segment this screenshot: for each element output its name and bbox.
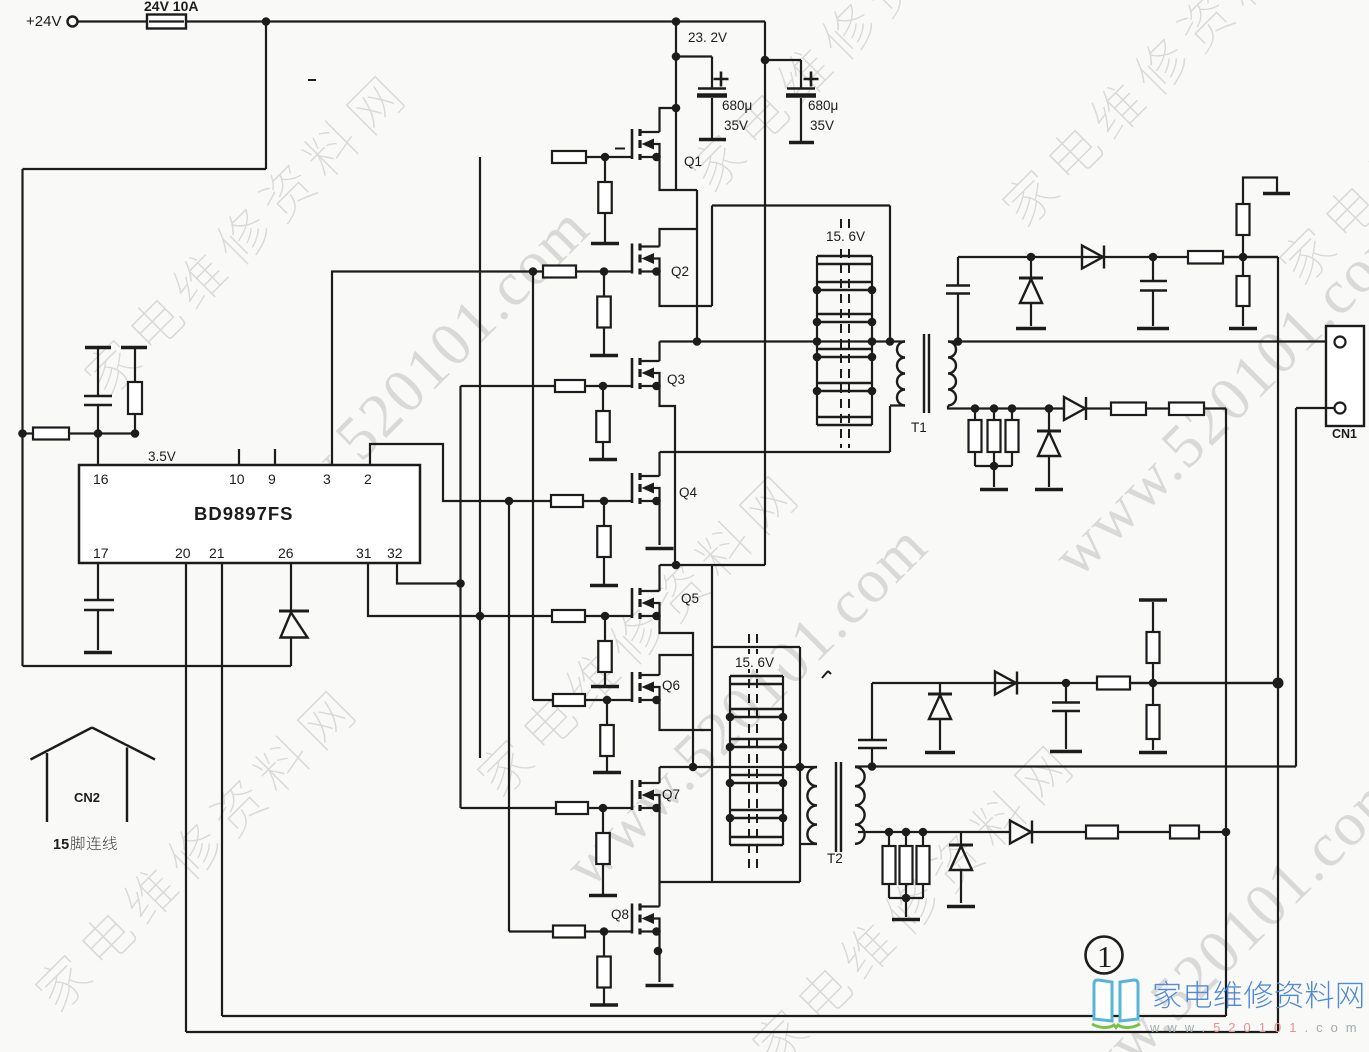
- wire T1 secondary bottom tap: [948, 406, 1064, 409]
- wire pin16 stub: [97, 434, 99, 466]
- wire +24V right rail: [764, 22, 766, 566]
- ground (C2): [84, 651, 112, 655]
- resistor R6 (current sense): [969, 420, 982, 452]
- resistor R4g (gate series, Q4): [551, 495, 583, 507]
- wire gate pulldown Q4: [603, 501, 605, 526]
- resistor R10: [1169, 403, 1204, 416]
- wire gate of Q4: [583, 500, 632, 502]
- wire left rail: [21, 169, 23, 666]
- svg-text:10: 10: [229, 471, 245, 487]
- wire node C line (T1 return): [660, 451, 891, 453]
- wire Q2 drain step: [660, 229, 698, 247]
- wire gate pulldown Q6: [606, 700, 608, 725]
- capacitor bank CB2 dashed core lines: [749, 634, 757, 868]
- resistor R14 (current sense): [883, 846, 896, 884]
- wire gate pulldown Q1: [604, 157, 606, 182]
- capacitor bank CB1 left bus: [816, 256, 818, 425]
- wire R6 top lead: [974, 409, 976, 421]
- capacitor CB2.2 plates: [730, 709, 783, 717]
- wire pin 21 to bottom bus: [221, 564, 223, 1016]
- transistor Q2: [632, 244, 689, 280]
- svg-text:BD9897FS: BD9897FS: [194, 503, 294, 524]
- wire left loop down: [265, 22, 267, 170]
- junction sense R15 top: [902, 828, 911, 837]
- wire R5 to ground: [1242, 306, 1244, 326]
- wire 23.2V rail: [675, 22, 677, 191]
- wire sense join 2: [889, 897, 923, 899]
- svg-text:15: 15: [53, 837, 69, 853]
- svg-text:23. 2V: 23. 2V: [688, 30, 727, 45]
- wire rail to C4: [765, 59, 801, 61]
- ground (C8): [1050, 750, 1082, 754]
- wire C1 top lead: [97, 349, 99, 396]
- wire Q1 source step: [660, 157, 698, 190]
- wire Q6 drain step: [660, 655, 694, 675]
- svg-text:21: 21: [209, 545, 225, 561]
- junction C7 tap: [868, 762, 877, 771]
- wire D3 to R9: [1086, 407, 1111, 409]
- svg-text:35V: 35V: [810, 118, 834, 133]
- junction CB2 right bus: [779, 814, 788, 823]
- junction CB1 right bus: [868, 353, 877, 362]
- svg-text:2: 2: [364, 471, 372, 487]
- wire ZD1 lead: [1030, 257, 1032, 278]
- node gate Q8: [600, 927, 609, 936]
- svg-text:1: 1: [1097, 939, 1113, 974]
- node VREF: [94, 429, 103, 438]
- resistor R8p (gate pulldown, Q8): [597, 957, 611, 988]
- wire node to R2: [98, 432, 135, 434]
- resistor R5g (gate series, Q5): [552, 610, 585, 622]
- junction R2 bottom: [131, 429, 140, 438]
- wire ZD4 top lead: [960, 832, 962, 845]
- junction CB1 left bus: [813, 353, 822, 362]
- svg-text:15. 6V: 15. 6V: [735, 655, 774, 670]
- wire Q5 drain rail line: [660, 564, 766, 566]
- ground (C4): [789, 141, 814, 145]
- resistor R18: [1170, 826, 1199, 839]
- svg-text:Q4: Q4: [679, 485, 698, 500]
- resistor R15 (current sense): [900, 846, 913, 884]
- junction CB2 left bus: [726, 779, 735, 788]
- wire node D line (T2 return): [660, 881, 801, 883]
- wire gate of Q6: [585, 699, 632, 701]
- diode ZD1 zener: [1019, 277, 1043, 280]
- wire sense join: [975, 465, 1012, 467]
- wire rail Q2/Q6 (pin3 bus): [532, 272, 534, 701]
- svg-text:Q1: Q1: [684, 154, 702, 169]
- wire T2 rectifier line: [872, 682, 1278, 684]
- junction CB1 left bus: [813, 337, 822, 346]
- capacitor CB1.6 plates: [817, 417, 872, 425]
- transistor Q8: [632, 904, 661, 936]
- wire ZD1 to ground: [1030, 303, 1032, 326]
- diode ZD4 zener: [949, 844, 973, 847]
- ground (ZD1): [1016, 327, 1046, 331]
- wire Q3 source step: [660, 386, 676, 452]
- junction C5 tap: [954, 337, 963, 346]
- svg-text:T2: T2: [827, 851, 843, 866]
- diode D5: [1010, 821, 1032, 844]
- junction divider 1: [1239, 253, 1248, 262]
- wire T1 rectifier line: [958, 256, 1278, 258]
- wire C7 bottom lead: [871, 748, 873, 767]
- wire gate of Q8: [585, 930, 632, 932]
- node gate Q2: [600, 267, 609, 276]
- wire R5 top lead: [1242, 257, 1244, 276]
- junction sense R8 top: [1008, 404, 1017, 413]
- wire pin 32 to bus: [397, 564, 461, 584]
- wire node A to T1 primary: [660, 340, 906, 342]
- wire ZD2 to ground: [1048, 456, 1050, 487]
- node gate Q3: [599, 382, 608, 391]
- ground (R13): [1139, 751, 1167, 755]
- junction pin3 bus: [529, 267, 538, 276]
- ground (Q2 gate pulldown): [590, 354, 618, 358]
- wire R9 to R10: [1146, 407, 1169, 409]
- resistor R6g (gate series, Q6): [553, 694, 585, 706]
- diode ZD2 zener: [1037, 430, 1061, 433]
- wire R16 top lead: [922, 832, 924, 846]
- resistor R7 (current sense): [988, 420, 1001, 452]
- wire gate of Q3: [585, 385, 632, 387]
- wire pin 26 lead: [290, 564, 292, 611]
- wire T2 box left: [711, 647, 713, 881]
- resistor R13: [1147, 705, 1160, 739]
- wire R4 bottom lead: [1242, 235, 1244, 257]
- capacitor CB1.4 plates: [817, 349, 872, 357]
- resistor R7p (gate pulldown, Q7): [596, 833, 610, 864]
- svg-text:35V: 35V: [724, 118, 748, 133]
- wire ZD3 lead: [939, 683, 941, 694]
- transistor Q7: [632, 780, 680, 812]
- wire CN1 pin2 rail: [1295, 408, 1297, 767]
- wire gate pulldown Q8: [603, 932, 605, 957]
- ground (sense T2): [892, 918, 920, 922]
- junction CB2 left bus: [726, 713, 735, 722]
- svg-text:CN1: CN1: [1332, 427, 1357, 441]
- wire C8 bottom lead: [1065, 711, 1067, 749]
- connector CN2 (15-pin link): [31, 728, 156, 823]
- svg-text:Q7: Q7: [662, 787, 680, 802]
- svg-text:+24V: +24V: [26, 13, 61, 30]
- svg-text:3: 3: [323, 471, 331, 487]
- junction C6 tap: [1149, 253, 1158, 262]
- junction ZD2 tap: [1045, 404, 1054, 413]
- label T2 bank 15.6V: [733, 654, 779, 670]
- capacitor C2 (pin17): [84, 599, 114, 602]
- transformer T1 core: [924, 334, 929, 413]
- resistor R5p (gate pulldown, Q5): [598, 641, 612, 672]
- wire gate pulldown Q3: [602, 386, 604, 411]
- wire Q8 gate line: [509, 930, 553, 932]
- node gate Q5: [601, 612, 610, 621]
- wire gate pulldown Q5: [604, 616, 606, 641]
- wire C6 top lead: [1152, 257, 1154, 281]
- junction sense R16 top: [919, 828, 928, 837]
- junction CB1 left bus: [813, 318, 822, 327]
- wire T2 box top: [712, 646, 800, 648]
- junction rail V2: [1222, 828, 1231, 837]
- diode D4: [995, 672, 1017, 695]
- ground (Q8 gate pulldown): [590, 1003, 618, 1007]
- resistor R9: [1111, 403, 1146, 416]
- junction sense R6 top: [971, 404, 980, 413]
- bar (R12 top): [1139, 598, 1167, 602]
- capacitor bank CB1 dashed core lines: [841, 219, 849, 448]
- wire T2 secondary bottom tap: [858, 831, 1010, 833]
- svg-text:16: 16: [93, 471, 109, 487]
- ground (Q4 gate pulldown): [590, 584, 618, 588]
- ground (C6): [1137, 327, 1169, 331]
- svg-text:17: 17: [93, 545, 109, 561]
- wire bottom bus inner: [222, 1015, 1226, 1017]
- label site logo book icon: [1092, 980, 1140, 1028]
- capacitor CB2.4 plates: [730, 775, 783, 783]
- junction rail to C4: [761, 56, 770, 65]
- junction CB1 right bus: [868, 337, 877, 346]
- transformer T2 primary winding: [807, 767, 817, 844]
- node B junction: [689, 763, 698, 772]
- capacitor C6: [1140, 280, 1167, 283]
- wire C6 bottom lead: [1152, 291, 1154, 327]
- ground (Q8 source): [646, 984, 674, 988]
- wire mid rail (V2 out): [1225, 409, 1227, 1017]
- wire Q1 drain: [660, 108, 673, 132]
- junction top rail B (23.2V): [672, 17, 681, 26]
- capacitor CB2.5 plates: [730, 810, 783, 818]
- wire gate pulldown Q7: [602, 808, 604, 833]
- resistor R6p (gate pulldown, Q6): [600, 725, 614, 756]
- svg-text:Q5: Q5: [681, 591, 699, 606]
- junction Q1 drain rail: [672, 104, 681, 113]
- resistor R8g (gate series, Q8): [553, 926, 585, 938]
- wire C5 top lead: [957, 257, 959, 286]
- svg-text:3.5V: 3.5V: [148, 449, 176, 464]
- wire Q3 drain: [658, 342, 660, 362]
- label 15-pin link text: [53, 836, 117, 853]
- wire sense to ground: [993, 466, 995, 487]
- resistor R2p (gate pulldown, Q2): [597, 297, 611, 328]
- junction CB2 right bus: [779, 743, 788, 752]
- wire C8 top lead: [1065, 683, 1067, 703]
- ground (Q5 gate pulldown): [591, 685, 619, 689]
- wire rail Q1/Q5 (pin31 bus): [479, 157, 481, 758]
- transformer T1 secondary winding: [948, 342, 956, 406]
- junction CB1 left bus: [813, 286, 822, 295]
- resistor R4p (gate pulldown, Q4): [597, 526, 611, 557]
- wire R15 bottom lead: [905, 884, 907, 898]
- wire R12 bottom lead: [1152, 663, 1154, 683]
- label page mark 1: [1086, 937, 1123, 975]
- wire R3 to divider: [1223, 256, 1278, 258]
- wire R16 bottom lead: [922, 884, 924, 898]
- capacitor C5 (coupling): [946, 286, 970, 294]
- wire gate of Q7: [588, 807, 632, 809]
- resistor R8 (current sense): [1006, 420, 1019, 452]
- wire CN1 pin2 lead: [1296, 407, 1335, 409]
- capacitor bank CB1 right bus: [871, 256, 873, 425]
- junction pin32 bus: [456, 579, 465, 588]
- wire gate of Q2: [576, 270, 632, 272]
- wire Q6 source step: [660, 700, 713, 730]
- ground (C1 top bar): [85, 346, 111, 350]
- wire T1 secondary top to CN1: [948, 340, 1335, 342]
- wire R14 top lead: [888, 832, 890, 846]
- junction left rail: [18, 429, 27, 438]
- node gate Q1: [601, 153, 610, 162]
- resistor R11: [1097, 677, 1130, 690]
- wire T2 primary bottom lead: [800, 843, 817, 845]
- wire fuse to rail: [186, 20, 765, 22]
- wire pin 2 to Q4 line: [370, 444, 551, 501]
- wire R13 to ground: [1152, 739, 1154, 750]
- wire T1 primary bottom lead: [890, 406, 905, 453]
- junction CB2 right bus: [779, 779, 788, 788]
- wire R11 to divider: [1130, 682, 1278, 684]
- transistor Q5: [632, 588, 699, 620]
- node gate Q6: [603, 696, 612, 705]
- wire gate pulldown Q2: [603, 272, 605, 297]
- wire pin 31 to Q5 line: [368, 564, 552, 616]
- svg-text:24V 10A: 24V 10A: [144, 0, 198, 14]
- junction rail to C3: [672, 52, 681, 61]
- diode D2: [1082, 246, 1104, 269]
- transformer T1 primary winding: [897, 342, 905, 406]
- junction Q8 source lower: [654, 947, 663, 956]
- svg-text:Q8: Q8: [611, 907, 629, 922]
- wire T1 box right upper: [889, 206, 891, 342]
- junction CB1 left bus: [813, 387, 822, 396]
- capacitor CB1.2 plates: [817, 282, 872, 290]
- wire Q6 gate line: [533, 699, 553, 701]
- diode ZD3 zener: [928, 693, 952, 696]
- wire T1 box top: [712, 204, 890, 206]
- resistor R5: [1237, 276, 1250, 306]
- wire gate of Q1: [586, 156, 632, 158]
- wire left loop horizontal: [23, 168, 267, 170]
- wire ZD2 top lead: [1048, 409, 1050, 432]
- capacitor CB1.1 plates: [817, 256, 872, 264]
- wire R17 to R18: [1118, 831, 1170, 833]
- resistor R1: [33, 428, 69, 440]
- resistor R7g (gate series, Q7): [556, 802, 588, 814]
- transistor Q6: [632, 672, 680, 704]
- wire left rail to D1: [23, 665, 292, 667]
- junction T1 box right: [886, 337, 895, 346]
- wire Q7 gate line: [461, 807, 557, 809]
- svg-text:T1: T1: [911, 420, 927, 435]
- transistor Q1: [632, 129, 702, 169]
- junction divider 2: [1149, 679, 1158, 688]
- wire Q5 source step: [660, 616, 694, 767]
- ground (ZD4): [947, 905, 975, 909]
- wire T2 secondary top line: [855, 765, 1296, 767]
- svg-text:680μ: 680μ: [808, 98, 838, 113]
- junction CB1 right bus: [868, 387, 877, 396]
- svg-text:Q3: Q3: [667, 372, 685, 387]
- capacitor C3 680u 35V electrolytic: [697, 57, 729, 139]
- label site logo text: [1154, 981, 1362, 1008]
- connector CN1: [1326, 326, 1364, 441]
- junction sense R14 top: [885, 828, 894, 837]
- wire C2 bottom lead: [97, 610, 99, 650]
- transformer T2 secondary winding: [855, 767, 865, 844]
- transistor Q4: [632, 473, 698, 505]
- wire ZD3 to ground: [939, 719, 941, 750]
- wire pin 3 to Q2/Q6 bus: [332, 272, 543, 466]
- wire pulldown to ground Q2: [603, 328, 605, 355]
- junction CB2 left bus: [726, 814, 735, 823]
- resistor R17: [1086, 826, 1118, 839]
- wire ZD4 to ground: [960, 870, 962, 903]
- wire C1 bottom lead: [97, 405, 99, 434]
- diode D3: [1064, 397, 1086, 420]
- capacitor CB2.1 plates: [730, 676, 783, 684]
- junction CB1 right bus: [868, 318, 877, 327]
- node A junction: [693, 337, 702, 346]
- svg-text:32: 32: [387, 545, 403, 561]
- fuse F1 24V 10A: [144, 0, 198, 29]
- svg-text:31: 31: [356, 545, 372, 561]
- wire gate of Q5: [585, 615, 632, 617]
- label T1 bank 15.6V: [824, 228, 870, 244]
- junction CB2 right bus: [779, 713, 788, 722]
- svg-text:26: 26: [278, 545, 294, 561]
- capacitor C4 680u 35V electrolytic: [786, 60, 819, 141]
- resistor R16 (current sense): [917, 846, 930, 884]
- ground (Q3 gate pulldown): [589, 458, 617, 462]
- resistor R3g (gate series, Q3): [555, 380, 585, 392]
- wire right rail (V1 out): [1277, 257, 1279, 1032]
- junction rectifier to rail: [1273, 678, 1284, 689]
- svg-text:Q6: Q6: [662, 678, 680, 693]
- wire Q7 source: [658, 808, 660, 882]
- node gate Q7: [599, 804, 608, 813]
- capacitor C7 (coupling): [858, 739, 887, 742]
- wire pulldown to ground Q5: [604, 672, 606, 686]
- junction sense R7 top: [990, 404, 999, 413]
- svg-text:15. 6V: 15. 6V: [826, 229, 865, 244]
- junction T2 box right: [796, 763, 805, 772]
- terminal +24V input: [68, 17, 78, 27]
- wire Q2 source step: [660, 272, 713, 307]
- wire pin 9 stub: [274, 449, 276, 465]
- wire Q3 gate line: [461, 385, 556, 387]
- wire +24V to fuse: [78, 20, 147, 22]
- capacitor bank CB2 right bus: [782, 676, 784, 845]
- wire R6 bottom lead: [974, 452, 976, 466]
- wire R4 top hook: [1243, 178, 1277, 205]
- svg-text:20: 20: [175, 545, 191, 561]
- svg-text:www.520101.com: www.520101.com: [1149, 1020, 1365, 1035]
- wire pin 17 lead: [97, 564, 99, 600]
- wire bottom bus outer: [186, 1031, 1278, 1033]
- ground (Q4 source): [646, 547, 674, 551]
- wire R1 left lead: [23, 432, 34, 434]
- wire Q4 source: [658, 501, 660, 545]
- ground (Q7 gate pulldown): [589, 894, 617, 898]
- wire pulldown to ground Q6: [606, 756, 608, 772]
- wire: [308, 80, 831, 678]
- wire R7 bottom lead: [993, 452, 995, 466]
- svg-text:9: 9: [268, 471, 276, 487]
- wire Q7 drain: [658, 767, 660, 783]
- capacitor CB2.6 plates: [730, 837, 783, 845]
- capacitor C1: [84, 396, 112, 405]
- wire R12 top lead: [1152, 602, 1154, 632]
- junction pin31 bus: [476, 612, 485, 621]
